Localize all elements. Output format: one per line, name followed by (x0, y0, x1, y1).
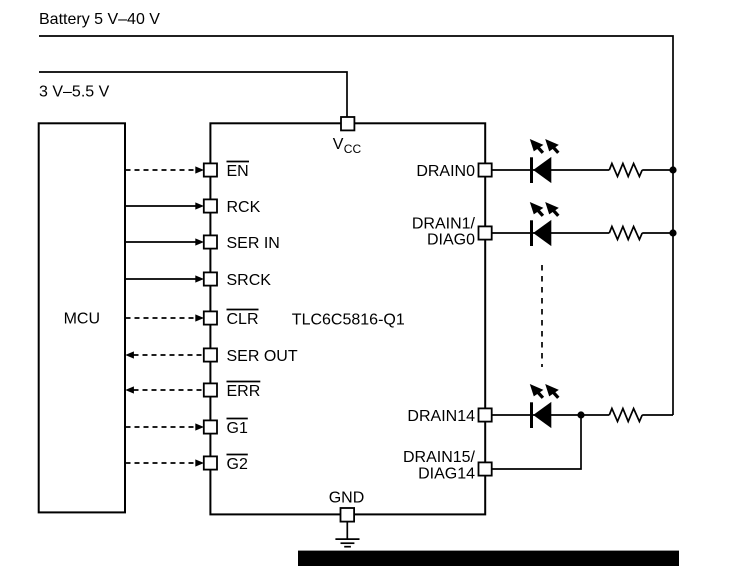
svg-text:MCU: MCU (64, 311, 100, 328)
pin DRAIN14 (407, 408, 491, 425)
wire MCU to RCK (solid) (126, 202, 205, 209)
svg-text:DRAIN0: DRAIN0 (416, 163, 475, 180)
LED D1 (530, 139, 559, 183)
svg-text:3 V–5.5 V: 3 V–5.5 V (39, 84, 110, 101)
svg-text:G2: G2 (227, 456, 248, 473)
svg-text:V: V (333, 136, 344, 153)
wire MCU to SRCK (solid) (126, 275, 205, 282)
svg-text:GND: GND (329, 490, 365, 507)
footer bar (298, 551, 679, 566)
pin SER IN (204, 235, 280, 252)
svg-text:SER IN: SER IN (227, 235, 280, 252)
wire SER OUT to MCU (dashed, arrow into MCU) (125, 351, 204, 358)
pin ERR (204, 382, 260, 401)
wire DRAIN0 row (492, 169, 673, 171)
pin VCC (333, 117, 362, 156)
IC U1 TLC6C5816-Q1 (210, 123, 485, 514)
svg-text:SER OUT: SER OUT (227, 348, 298, 365)
svg-text:CLR: CLR (227, 311, 259, 328)
pin DRAIN1/DIAG0 (412, 215, 492, 248)
resistor R15 (609, 409, 642, 422)
svg-text:RCK: RCK (227, 199, 261, 216)
wire ERR to MCU (dashed, arrow into MCU) (125, 386, 204, 393)
wire MCU to G2 (dashed) (126, 459, 205, 466)
LED D2 (530, 202, 559, 246)
wire 3V supply to VCC (39, 72, 347, 117)
svg-text:TLC6C5816-Q1: TLC6C5816-Q1 (292, 311, 405, 328)
pin GND (329, 490, 365, 522)
dashed continuation line (DRAIN2–DRAIN13 omitted) (541, 265, 543, 367)
svg-text:DRAIN15/: DRAIN15/ (403, 449, 476, 466)
MCU (39, 123, 125, 512)
svg-text:ERR: ERR (227, 383, 261, 400)
resistor R1 (609, 164, 642, 177)
wire GND pin to ground symbol (346, 522, 348, 539)
pin SRCK (204, 272, 271, 289)
svg-text:G1: G1 (227, 420, 248, 437)
wire MCU to CLR (dashed) (126, 314, 205, 321)
svg-text:EN: EN (227, 163, 249, 180)
resistor R2 (609, 227, 642, 240)
pin G2 (204, 455, 248, 474)
LED D15 (530, 384, 559, 428)
pin CLR (204, 310, 259, 329)
svg-text:Battery 5 V–40 V: Battery 5 V–40 V (39, 11, 160, 28)
pin EN (204, 162, 249, 181)
wire MCU to G1 (dashed) (126, 423, 205, 430)
svg-text:DRAIN14: DRAIN14 (407, 408, 475, 425)
pin SER OUT (204, 348, 298, 365)
pin RCK (204, 199, 261, 216)
pin G1 (204, 419, 248, 438)
svg-text:SRCK: SRCK (227, 272, 272, 289)
wire battery rail (top horizontal and right vertical) (39, 36, 673, 415)
svg-text:DIAG14: DIAG14 (418, 466, 475, 483)
junction dot DRAIN0 at battery rail (669, 166, 676, 173)
pin DRAIN0 (416, 163, 491, 180)
svg-text:DIAG0: DIAG0 (427, 231, 475, 248)
ground symbol (335, 539, 359, 547)
pin DRAIN15/DIAG14 (403, 449, 492, 483)
wire DRAIN15/DIAG14 sense line (492, 415, 581, 469)
wire MCU to SER IN (solid) (126, 238, 205, 245)
wire MCU to EN (dashed) (126, 166, 205, 173)
svg-text:DRAIN1/: DRAIN1/ (412, 215, 476, 232)
svg-text:CC: CC (344, 142, 362, 156)
junction dot DRAIN14 sense tap (577, 411, 584, 418)
wire DRAIN14 row (492, 414, 673, 416)
wire DRAIN1 row (492, 232, 673, 234)
junction dot DRAIN1 at battery rail (669, 229, 676, 236)
